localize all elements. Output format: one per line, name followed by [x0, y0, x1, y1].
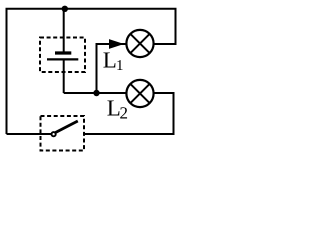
svg-text:1: 1	[116, 58, 124, 74]
svg-text:2: 2	[120, 104, 129, 123]
svg-text:L: L	[103, 48, 117, 73]
